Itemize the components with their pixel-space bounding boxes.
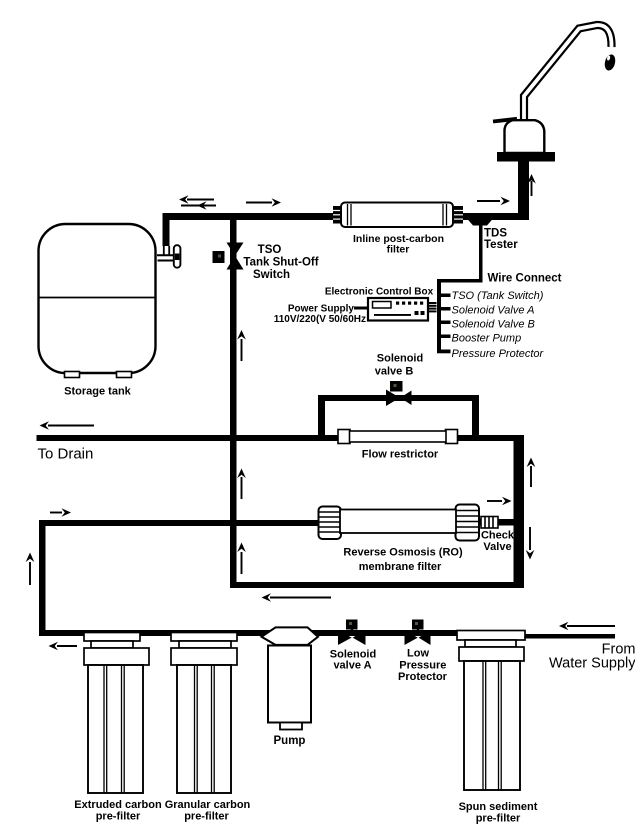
svg-text:Low: Low (407, 648, 429, 660)
arrow: up arrow on TSO line upper (237, 330, 246, 361)
pump (262, 627, 319, 729)
tank valve fitting (157, 245, 180, 268)
wire: tank connection vertical pipe (163, 213, 170, 246)
arrow: right arrow before faucet riser (477, 197, 510, 206)
svg-text:Reverse Osmosis (RO): Reverse Osmosis (RO) (343, 547, 463, 559)
low pressure protector valve (405, 620, 431, 646)
wire: check valve outlet line (478, 519, 524, 526)
arrow: up arrow beside right vertical (527, 458, 536, 488)
svg-text:Switch: Switch (253, 269, 290, 281)
svg-text:Water Supply: Water Supply (549, 656, 635, 672)
svg-text:Pressure: Pressure (399, 660, 446, 672)
spun sediment pre-filter (457, 631, 525, 791)
arrow: up arrow on TSO line below drain (237, 469, 246, 500)
wire: To Drain horizontal line (37, 435, 525, 441)
arrow: left arrow at bottom-left corner (49, 642, 78, 651)
wire: horizontal line into RO membrane inlet (39, 520, 321, 526)
svg-text:filter: filter (387, 244, 410, 256)
svg-text:Power Supply: Power Supply (288, 304, 355, 315)
svg-text:Flow restrictor: Flow restrictor (362, 449, 439, 461)
svg-text:pre-filter: pre-filter (96, 811, 141, 823)
water drop (603, 53, 617, 71)
wire: solenoid B bypass loop left vertical (318, 395, 325, 441)
storage tank (39, 224, 156, 378)
wire: solenoid B bypass loop right vertical (472, 395, 479, 441)
TSO tank shut-off switch valve (213, 243, 244, 270)
svg-text:valve B: valve B (375, 366, 414, 378)
svg-text:Solenoid Valve B: Solenoid Valve B (452, 319, 535, 331)
svg-text:110V/220(V 50/60Hz: 110V/220(V 50/60Hz (274, 314, 366, 325)
faucet counter bar (497, 152, 555, 162)
svg-text:TSO (Tank Switch): TSO (Tank Switch) (452, 290, 544, 302)
svg-text:TSO: TSO (258, 244, 282, 256)
svg-text:Wire Connect: Wire Connect (488, 273, 562, 285)
svg-text:Valve: Valve (483, 541, 511, 553)
wire: TDS tester signal wire (479, 224, 483, 282)
solenoid valve A (338, 620, 366, 646)
TDS tester tap (467, 218, 494, 226)
faucet dome base (505, 120, 545, 153)
svg-text:pre-filter: pre-filter (184, 811, 229, 823)
svg-text:Extruded carbon: Extruded carbon (74, 799, 162, 811)
svg-text:Spun sediment: Spun sediment (459, 801, 538, 813)
extruded carbon pre-filter (84, 633, 149, 794)
arrow: up arrow on TSO line lower (237, 543, 246, 575)
arrow: left arrow on supply line (559, 622, 615, 631)
RO membrane filter (319, 505, 480, 541)
wire: supply line from water supply (525, 634, 615, 639)
wire: top main pipe from tank to faucet riser (163, 213, 529, 220)
svg-text:pre-filter: pre-filter (476, 813, 521, 825)
wire: power supply lead (354, 307, 368, 310)
arrow: right arrow above RO inlet line (50, 508, 71, 517)
faucet spout (524, 25, 612, 124)
arrow: up arrow beside faucet riser (527, 174, 536, 196)
electronic control box (368, 298, 437, 321)
inline post-carbon filter (333, 203, 463, 228)
svg-text:Electronic Control Box: Electronic Control Box (325, 287, 434, 298)
wire: bottom row main line (39, 630, 525, 636)
check valve (481, 517, 498, 529)
wire stub Solenoid Valve B (441, 321, 451, 325)
svg-text:Solenoid: Solenoid (377, 353, 423, 365)
svg-text:membrane filter: membrane filter (359, 561, 442, 573)
wire stub Booster Pump (441, 335, 451, 339)
arrow: double left arrow upper above top pipe (179, 195, 214, 204)
svg-text:Solenoid Valve A: Solenoid Valve A (452, 305, 535, 317)
wire: bottom loop horizontal line (230, 582, 524, 588)
svg-text:Granular carbon: Granular carbon (165, 799, 251, 811)
svg-text:valve A: valve A (333, 660, 371, 672)
svg-text:Storage tank: Storage tank (64, 386, 132, 398)
svg-text:Check: Check (481, 530, 515, 542)
wire: right thick vertical line (514, 435, 525, 588)
svg-text:Pump: Pump (274, 735, 306, 747)
svg-text:TDS: TDS (484, 228, 507, 240)
flow restrictor (338, 430, 458, 444)
wire stub Pressure Protector (437, 350, 451, 354)
arrow: left arrow above To Drain line (40, 421, 95, 430)
faucet lever (493, 119, 517, 122)
arrow: down arrow beside right vertical (526, 527, 535, 560)
arrow: left arrow below bottom loop line (262, 593, 332, 602)
wire: TSO vertical line down to bottom loop (230, 213, 237, 588)
svg-text:Tank Shut-Off: Tank Shut-Off (243, 257, 318, 269)
wire: left vertical line to bottom row (39, 520, 46, 636)
wire: solenoid B bypass loop top line (318, 395, 479, 401)
solenoid valve B (386, 381, 412, 406)
wire: faucet riser pipe (518, 158, 529, 220)
arrow: up arrow beside left vertical (26, 553, 35, 586)
svg-text:Booster Pump: Booster Pump (452, 333, 522, 345)
wire stub Solenoid Valve A (441, 307, 451, 311)
svg-text:Tester: Tester (484, 239, 518, 251)
svg-text:To Drain: To Drain (38, 446, 94, 463)
faucet (493, 25, 617, 162)
granular carbon pre-filter (171, 633, 237, 794)
arrow: right arrow above top pipe (246, 198, 281, 207)
wire stub TSO (Tank Switch) (441, 294, 451, 298)
arrow: double left arrow lower above top pipe (181, 201, 216, 210)
arrow: right arrow above check valve (487, 497, 512, 506)
svg-text:Protector: Protector (398, 671, 448, 683)
svg-text:Pressure Protector: Pressure Protector (452, 348, 545, 360)
